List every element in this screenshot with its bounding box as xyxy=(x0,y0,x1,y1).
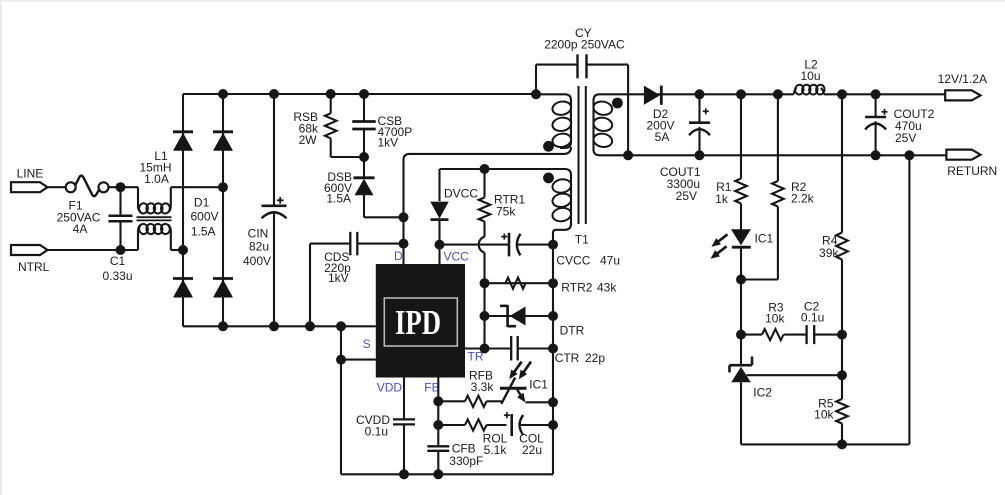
diode DVCC xyxy=(438,169,440,201)
svg-text:D1: D1 xyxy=(194,195,210,209)
node top rail / mid branch xyxy=(218,89,228,99)
resistor R1 1k xyxy=(740,94,742,178)
svg-text:47u: 47u xyxy=(600,253,620,267)
node CY / return rail xyxy=(623,150,633,160)
connector RETURN output xyxy=(946,150,980,160)
svg-text:0.1u: 0.1u xyxy=(365,424,388,438)
node top rail / CIN xyxy=(269,89,279,99)
node COUT2 top xyxy=(871,89,881,99)
node R3/C2 right xyxy=(837,330,847,340)
inductor L1 15mH 1.0A common-mode choke xyxy=(138,187,141,212)
svg-text:T1: T1 xyxy=(575,233,589,247)
resistor R2 2.2k xyxy=(777,94,779,181)
wire DTR branch to TR line xyxy=(483,316,485,349)
node R4 top xyxy=(837,89,847,99)
svg-text:IC2: IC2 xyxy=(753,385,772,399)
node RSB/CSB/DSB xyxy=(359,152,369,162)
diode D1 bridge upper-right xyxy=(213,130,233,133)
wire bridge left branch xyxy=(182,94,184,326)
wire fuse to node xyxy=(109,186,139,188)
transformer T1 auxiliary winding xyxy=(553,169,571,233)
capacitor CDS 220p 1kV xyxy=(310,243,350,245)
svg-text:0.33u: 0.33u xyxy=(102,269,132,283)
wire FB pin down xyxy=(437,378,439,447)
diode D1 bridge upper-left xyxy=(173,130,193,133)
wire R2 bottom to LED cathode xyxy=(741,278,778,280)
svg-text:IC1: IC1 xyxy=(755,232,774,246)
wire aux top xyxy=(440,168,566,170)
node FB/RFB xyxy=(433,396,443,406)
node RTR2 right xyxy=(548,278,558,288)
diode D2 200V 5A xyxy=(644,86,660,105)
wire LINE to fuse xyxy=(48,186,66,188)
svg-text:75k: 75k xyxy=(496,205,516,219)
wire hop RTR1 over VCC line xyxy=(479,237,485,253)
node DSB/drain xyxy=(399,212,409,222)
capacitor C1 0.33u xyxy=(119,187,121,215)
capacitor COUT1 3300u 25V xyxy=(689,121,710,124)
svg-text:CTR: CTR xyxy=(555,351,580,365)
primary polarity dot xyxy=(543,141,554,152)
svg-text:22p: 22p xyxy=(585,351,605,365)
svg-text:CVCC: CVCC xyxy=(556,253,590,267)
resistor RTR1 75k xyxy=(483,169,485,198)
svg-text:330pF: 330pF xyxy=(449,454,483,468)
transformer T1 core xyxy=(578,86,580,224)
svg-text:1kV: 1kV xyxy=(328,271,349,285)
capacitor CY 2200p 250VAC xyxy=(535,65,537,95)
resistor RSB 68k 2W xyxy=(330,94,332,113)
diode D1 bridge lower-right xyxy=(213,277,233,280)
svg-text:DTR: DTR xyxy=(560,323,585,337)
wire ROL line xyxy=(438,424,465,426)
capacitor C2 0.1u xyxy=(805,325,807,344)
svg-text:LINE: LINE xyxy=(17,166,44,180)
node R1 top xyxy=(736,89,746,99)
diode DSB 600V 1.5A xyxy=(363,157,365,178)
node RTR2 left xyxy=(480,278,490,288)
svg-text:22u: 22u xyxy=(522,443,542,457)
LED IC1 opto diode xyxy=(740,204,742,230)
node VCC junction xyxy=(435,240,445,250)
svg-text:10k: 10k xyxy=(765,311,785,325)
wire choke bottom to bridge xyxy=(171,249,183,251)
capacitor CIN 82u 400V xyxy=(273,94,275,206)
wire LED junction down to R3 line xyxy=(740,280,742,335)
svg-text:VCC: VCC xyxy=(444,250,470,264)
wire RTR2 line xyxy=(485,282,554,284)
node ref/R4-R5 xyxy=(837,370,847,380)
svg-text:600V: 600V xyxy=(190,210,218,224)
svg-text:1k: 1k xyxy=(715,192,729,206)
svg-text:82u: 82u xyxy=(249,240,269,254)
node DTR left xyxy=(480,311,490,321)
wire IPD bottom rail xyxy=(341,473,553,475)
svg-text:5A: 5A xyxy=(655,130,670,144)
wire RSB bottom to DSB node xyxy=(331,156,364,158)
auxiliary polarity dot xyxy=(543,173,554,184)
node VDD/ground rail xyxy=(399,469,409,479)
connector LINE xyxy=(11,182,48,192)
wire return rail xyxy=(622,154,946,156)
node ROL left xyxy=(433,420,443,430)
capacitor CVDD 0.1u on VDD pin xyxy=(403,378,405,420)
svg-text:RTR2: RTR2 xyxy=(561,280,592,294)
node FB/ground rail xyxy=(433,469,443,479)
wire output top rail xyxy=(626,93,794,95)
node bottom rail / mid branch xyxy=(218,321,228,331)
capacitor CSB 4700P 1kV xyxy=(363,94,365,122)
svg-text:D: D xyxy=(394,249,403,263)
node bottom rail / S branch xyxy=(336,321,346,331)
wire feedback ground rail xyxy=(741,443,909,445)
capacitor COUT2 470u 25V xyxy=(875,94,877,117)
wire opto emitter to right rail xyxy=(526,401,554,403)
wire bottom rail bridge to IPD xyxy=(183,325,376,327)
svg-text:43k: 43k xyxy=(597,280,617,294)
node RTR1 top xyxy=(480,164,490,174)
zener DTR xyxy=(506,305,509,327)
wire R3 line xyxy=(741,334,762,336)
node COL right xyxy=(548,420,558,430)
svg-text:4A: 4A xyxy=(73,222,88,236)
node fuse/C1 xyxy=(116,182,126,192)
resistor RTR2 43k xyxy=(506,278,526,289)
capacitor CFB 330pF xyxy=(427,445,449,447)
wire top rail xyxy=(183,93,538,95)
wire choke top to bridge xyxy=(171,186,223,188)
wire drain line xyxy=(404,154,566,264)
svg-text:400V: 400V xyxy=(243,254,271,268)
svg-text:10u: 10u xyxy=(800,69,820,83)
wire DTR line xyxy=(485,315,554,317)
svg-text:VDD: VDD xyxy=(377,381,403,395)
wire S pin xyxy=(341,359,376,361)
node COUT1 bottom xyxy=(695,150,705,160)
node NTRL/C1 xyxy=(116,245,126,255)
node riser/return rail xyxy=(904,150,914,160)
svg-text:5.1k: 5.1k xyxy=(484,443,508,457)
diode D1 bridge lower-left xyxy=(173,277,193,280)
IC U1 IPD controller xyxy=(376,264,465,378)
svg-text:IC1: IC1 xyxy=(529,378,548,392)
node COUT2 bottom xyxy=(871,150,881,160)
resistor R4 39k xyxy=(841,94,843,232)
svg-text:25V: 25V xyxy=(895,131,916,145)
node primary top / CY xyxy=(531,89,541,99)
wire RFB line xyxy=(438,400,465,402)
wire right riser to return rail xyxy=(908,155,910,444)
svg-text:S: S xyxy=(363,337,371,351)
node VCC line right xyxy=(548,240,558,250)
svg-text:CIN: CIN xyxy=(248,226,269,240)
svg-text:IPD: IPD xyxy=(395,304,441,342)
wire DSB to drain line xyxy=(364,216,404,218)
svg-text:2.2k: 2.2k xyxy=(791,192,815,206)
node R3 line left xyxy=(736,330,746,340)
wire TR line xyxy=(465,347,511,349)
svg-text:NTRL: NTRL xyxy=(18,260,50,274)
node bottom rail / CIN xyxy=(269,321,279,331)
svg-text:1kV: 1kV xyxy=(378,135,399,149)
svg-text:RETURN: RETURN xyxy=(947,164,997,178)
node R2 top xyxy=(773,89,783,99)
wire IC2 ref line xyxy=(747,374,843,376)
shunt regulator IC2 xyxy=(740,335,742,364)
svg-text:3.3k: 3.3k xyxy=(471,380,495,394)
node COUT1 top xyxy=(695,89,705,99)
node TR line / RTR branch xyxy=(480,344,490,354)
svg-text:1.0A: 1.0A xyxy=(144,172,169,186)
svg-text:R4: R4 xyxy=(822,233,838,247)
resistor RFB 3.3k xyxy=(465,396,487,407)
svg-text:12V/1.2A: 12V/1.2A xyxy=(938,72,987,86)
svg-text:1.5A: 1.5A xyxy=(191,224,216,238)
svg-text:1.5A: 1.5A xyxy=(326,192,351,206)
wire bridge middle branch xyxy=(222,94,224,326)
inductor L2 10u xyxy=(794,88,797,94)
capacitor CTR 22p xyxy=(510,336,512,361)
fuse F1 250VAC 4A xyxy=(66,182,76,192)
node emitter/right rail xyxy=(548,397,558,407)
capacitor COL 22u xyxy=(504,414,510,416)
wire VCC line xyxy=(440,244,509,246)
node CDS/drain pin D xyxy=(399,239,409,249)
resistor R5 10k xyxy=(836,399,848,424)
node TR line right xyxy=(548,344,558,354)
secondary polarity dot xyxy=(612,98,623,109)
svg-text:2200p 250VAC: 2200p 250VAC xyxy=(544,37,625,51)
opto-transistor IC1 xyxy=(500,387,527,390)
resistor ROL 5.1k xyxy=(465,419,487,430)
wire right feedback rail xyxy=(552,232,554,474)
node top rail / CSB xyxy=(359,89,369,99)
node DTR right xyxy=(548,311,558,321)
node S tee xyxy=(336,355,346,365)
svg-text:25V: 25V xyxy=(676,189,697,203)
svg-text:2W: 2W xyxy=(299,133,318,147)
svg-text:0.1u: 0.1u xyxy=(801,310,824,324)
wire RTR1 continues to RTR2 line xyxy=(483,253,485,284)
wire R4 bottom segment xyxy=(841,335,843,399)
wire NTRL to choke xyxy=(48,249,139,251)
svg-text:39k: 39k xyxy=(819,246,839,260)
capacitor CVCC 47u xyxy=(501,236,507,238)
node choke-top/bridge mid xyxy=(218,182,228,192)
node R5 bottom xyxy=(837,439,847,449)
node choke-bottom/bridge left xyxy=(178,245,188,255)
resistor R3 10k xyxy=(762,329,784,340)
svg-text:DVCC: DVCC xyxy=(444,186,478,200)
connector NTRL xyxy=(11,245,48,255)
connector 12V/1.2A output xyxy=(945,90,980,100)
node CDS/bottom rail xyxy=(305,321,315,331)
svg-text:C1: C1 xyxy=(110,254,126,268)
node top rail / RSB xyxy=(326,89,336,99)
svg-text:10k: 10k xyxy=(814,407,834,421)
transformer T1 primary winding xyxy=(538,94,571,148)
wire RTR1 branch to DTR line xyxy=(483,283,485,316)
transformer T1 secondary winding xyxy=(594,94,627,155)
node LED/R2 junction xyxy=(736,275,746,285)
wire S branch down to ground rail xyxy=(340,326,342,474)
